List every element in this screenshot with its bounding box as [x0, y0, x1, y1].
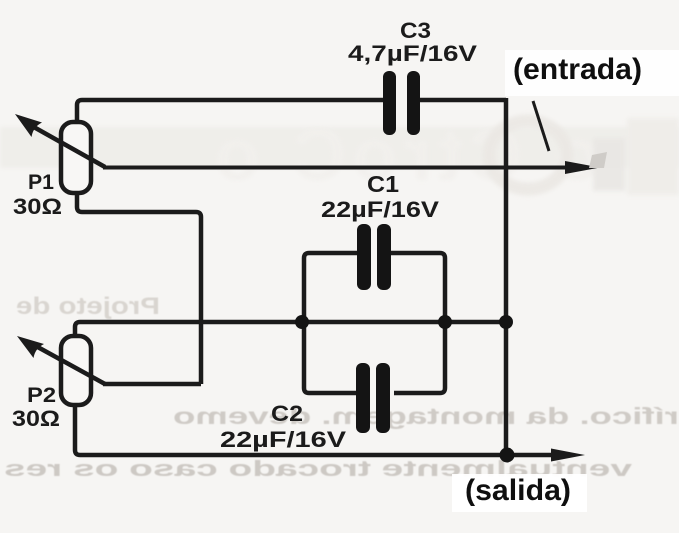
bleed-through text "ventualmente trocado caso os res"	[4, 456, 632, 481]
bleed-through text "Projeto de"	[16, 293, 160, 320]
potentiometer P2 body	[61, 336, 91, 405]
svg-text:Projeto de: Projeto de	[16, 293, 160, 320]
wire: top horizontal from P1 to right rail (through C3)	[77, 100, 384, 122]
gray smudge at entrada arrow tip	[589, 152, 607, 168]
svg-text:(entrada): (entrada)	[513, 53, 642, 86]
capacitor C3 plates	[383, 71, 396, 135]
wire: P2 wiper to crossing vertical	[103, 382, 201, 387]
wire: entrada line with arrowhead	[103, 166, 570, 170]
capacitor C1 plates	[357, 224, 371, 290]
svg-text:C2: C2	[271, 401, 303, 426]
wire: P2 bottom to salida line with arrowhead	[75, 406, 556, 455]
svg-text:P1: P1	[28, 171, 54, 194]
svg-text:P2: P2	[27, 384, 56, 407]
potentiometer P2 wiper arrow	[34, 345, 105, 384]
junction node: salida at right rail	[500, 448, 515, 463]
callout pointer line to entrada wire	[533, 101, 549, 151]
junction node: middle rail left	[295, 315, 309, 329]
parallel box for C1/C2	[304, 253, 357, 393]
svg-text:30Ω: 30Ω	[12, 406, 60, 431]
wire: middle horizontal rail	[75, 322, 506, 336]
junction node: middle rail right	[438, 315, 452, 329]
wire: right vertical rail	[504, 98, 509, 456]
svg-text:22µF/16V: 22µF/16V	[220, 427, 346, 452]
bleed-through headline band	[209, 113, 679, 196]
svg-text:C3: C3	[400, 18, 431, 43]
svg-text:rífico. da montagem. devemo: rífico. da montagem. devemo	[173, 403, 679, 429]
potentiometer P1 wiper arrow	[32, 126, 105, 167]
white halo behind (entrada) label	[505, 50, 679, 96]
capacitor C2 plates	[356, 363, 370, 433]
svg-text:30Ω: 30Ω	[13, 194, 62, 219]
wire: P1 bottom to crossing vertical	[77, 193, 201, 384]
svg-text:22µF/16V: 22µF/16V	[321, 197, 439, 222]
junction node: middle rail at right rail	[499, 315, 513, 329]
svg-text:C1: C1	[367, 171, 399, 197]
svg-text:4,7µF/16V: 4,7µF/16V	[348, 41, 477, 66]
white halo behind (salida) label	[452, 474, 587, 512]
bleed-through headline wash band	[0, 127, 679, 168]
potentiometer P1 body	[61, 122, 91, 193]
bleed-through text "rifico, da montagem, devemo"	[173, 403, 679, 429]
svg-text:(salida): (salida)	[465, 474, 571, 507]
